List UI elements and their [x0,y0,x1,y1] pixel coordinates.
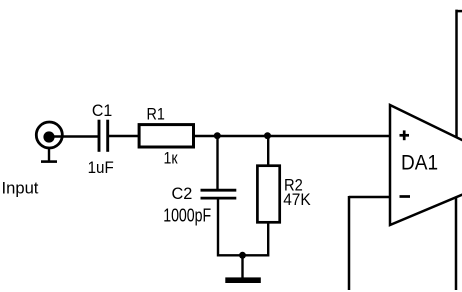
wire node B to R2 [267,136,269,166]
wire output bottom [455,197,458,290]
svg-text:1uF: 1uF [88,159,114,177]
ground [225,277,260,283]
svg-text:C2: C2 [172,184,193,203]
capacitor C2 [201,190,237,198]
svg-text:R1: R1 [147,105,165,124]
wire output feedback top [457,10,462,138]
wire C1 to R1 [109,135,139,138]
wire inverting input [349,196,389,290]
op-amp minus input mark [400,195,411,198]
ground rail wire [217,254,269,256]
op-amp plus input mark [400,130,410,140]
wire input to C1 [52,135,98,138]
svg-text:1к: 1к [164,150,179,168]
input connector J1 [36,122,62,162]
svg-text:DA1: DA1 [401,151,438,175]
wire R2 to ground rail [267,222,269,257]
wire R1 to op-amp [195,135,390,138]
node B junction [264,132,271,139]
wire C2 to ground rail [217,198,219,257]
wire to ground [241,255,243,277]
svg-text:47K: 47K [283,190,311,209]
wire node A to C2 [216,136,218,190]
op-amp DA1 [390,105,462,225]
svg-text:Input: Input [2,180,39,198]
capacitor C1 [99,120,108,152]
ground junction dot [239,252,246,259]
node A junction [214,132,221,139]
resistor R2 [257,166,279,223]
svg-text:C1: C1 [92,101,112,120]
svg-text:1000pF: 1000pF [163,205,211,225]
resistor R1 [139,125,193,147]
